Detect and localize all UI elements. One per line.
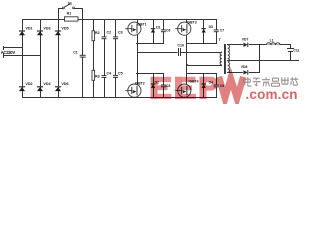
svg-text:C11: C11 <box>293 49 299 53</box>
wire: D4 branch <box>203 73 205 98</box>
svg-text:IGBT1: IGBT1 <box>137 22 147 26</box>
capacitor C10 <box>178 51 181 53</box>
svg-text:L1: L1 <box>270 38 274 42</box>
wire: rectifier column 2 <box>40 19 42 98</box>
svg-text:C2: C2 <box>107 31 112 35</box>
svg-text:VD2: VD2 <box>25 82 32 86</box>
diode VD1 <box>19 30 25 32</box>
diode D2 <box>151 83 155 85</box>
transformer T secondary winding <box>228 45 230 73</box>
transistor IGBT4 <box>178 84 191 97</box>
wire: S1 branch left leg <box>58 8 60 20</box>
svg-text:C1: C1 <box>73 50 78 54</box>
diode D3 <box>202 28 206 30</box>
svg-text:VD5: VD5 <box>61 26 68 30</box>
svg-text:C4: C4 <box>107 71 112 75</box>
wire: bridge midpoint A to transformer <box>137 52 222 54</box>
wire: C6 branch <box>163 19 165 44</box>
capacitor C2 <box>101 37 107 38</box>
capacitor C3 <box>112 37 118 38</box>
wire: leg B midpoint vertical <box>186 34 188 85</box>
wire: AC input line 2 <box>3 55 41 57</box>
inductor L1 <box>266 42 279 44</box>
switch S1 <box>58 8 63 10</box>
capacitor C6 <box>160 30 166 31</box>
wire: D3 branch <box>203 19 205 44</box>
wire: top DC bus <box>22 19 217 21</box>
capacitor C4 <box>101 76 107 77</box>
svg-text:C6: C6 <box>166 29 170 33</box>
svg-text:VD4: VD4 <box>43 82 51 86</box>
wire: leg B top sub-bus <box>186 43 217 45</box>
svg-text:D1: D1 <box>156 25 160 29</box>
wire: C9 branch <box>216 73 218 98</box>
wire: rectifier column 3 <box>58 19 60 98</box>
svg-text:S1: S1 <box>68 2 72 6</box>
wire: leg A top sub-bus <box>136 43 164 45</box>
wire: C2 C4 column <box>104 19 106 98</box>
transformer T primary winding <box>220 52 222 65</box>
wire: bridge midpoint B to transformer <box>186 65 222 67</box>
svg-text:C7: C7 <box>220 29 224 33</box>
watermark chinese characters dian zi chan pin shi jie <box>243 77 298 86</box>
diode D1 <box>151 28 155 30</box>
capacitor C1 <box>79 56 86 57</box>
wire: bottom DC bus <box>22 97 217 99</box>
diode VD7 <box>243 42 249 48</box>
transistor IGBT2 <box>128 84 141 97</box>
wire: leg A midpoint vertical <box>137 34 139 85</box>
capacitor C9 <box>213 85 219 86</box>
svg-text:C5: C5 <box>118 71 123 75</box>
svg-text:VD3: VD3 <box>43 26 50 30</box>
transformer T core <box>224 44 226 74</box>
wire: rectifier column 1 <box>22 19 24 98</box>
wire: VD7 VD8 cathode junction <box>259 44 261 73</box>
svg-text:VD6: VD6 <box>61 82 68 86</box>
wire: IGBT1 collector <box>137 19 139 24</box>
svg-text:VD7: VD7 <box>242 37 249 41</box>
wire: D2 branch <box>153 73 155 98</box>
diode VD4 <box>37 86 43 88</box>
diode D4 <box>202 83 206 85</box>
transistor IGBT3 <box>178 22 191 35</box>
svg-text:D3: D3 <box>209 25 213 29</box>
svg-text:R2: R2 <box>95 31 100 35</box>
wire: secondary bottom line <box>227 72 260 74</box>
svg-text:VD1: VD1 <box>25 26 32 30</box>
svg-text:VD8: VD8 <box>241 65 248 69</box>
capacitor C7 <box>213 30 219 31</box>
capacitor C8 <box>160 85 166 86</box>
svg-text:.com.cn: .com.cn <box>246 87 298 102</box>
svg-text:C10: C10 <box>177 43 184 47</box>
wire: C8 branch <box>163 73 165 98</box>
svg-text:AC220V: AC220V <box>1 50 16 55</box>
wire: AC input line 1 <box>3 47 23 49</box>
wire: leg B bottom sub-bus <box>186 73 217 75</box>
wire: secondary top rail <box>227 44 291 46</box>
resistor R3 <box>92 70 95 80</box>
transistor IGBT1 <box>128 22 141 35</box>
resistor R2 <box>92 31 95 41</box>
wire: C7 branch <box>216 19 218 44</box>
diode VD8 <box>243 70 249 76</box>
wire: leg A bottom sub-bus <box>136 73 164 75</box>
diode VD6 <box>55 86 61 88</box>
wire: IGBT3 collector <box>186 19 188 24</box>
wire: R2 R3 column <box>93 19 95 98</box>
wire: C3 C5 column <box>115 19 117 98</box>
svg-text:R1: R1 <box>67 11 72 15</box>
svg-text:C3: C3 <box>118 31 123 35</box>
diode VD5 <box>55 30 61 32</box>
wire: S1 branch right leg <box>82 8 84 20</box>
wire: D1 branch <box>153 19 155 44</box>
svg-text:R3: R3 <box>95 75 100 79</box>
resistor R1 <box>65 17 79 21</box>
diode VD3 <box>37 30 43 32</box>
wire: C1 column <box>82 19 84 98</box>
watermark EEPW logo letters <box>151 77 244 99</box>
diode VD2 <box>19 86 25 88</box>
capacitor C5 <box>112 76 118 77</box>
capacitor C11 <box>290 44 292 49</box>
svg-text:IGBT3: IGBT3 <box>187 20 197 24</box>
wire: secondary center-tap return <box>227 60 299 62</box>
svg-text:IGBT2: IGBT2 <box>135 82 145 86</box>
